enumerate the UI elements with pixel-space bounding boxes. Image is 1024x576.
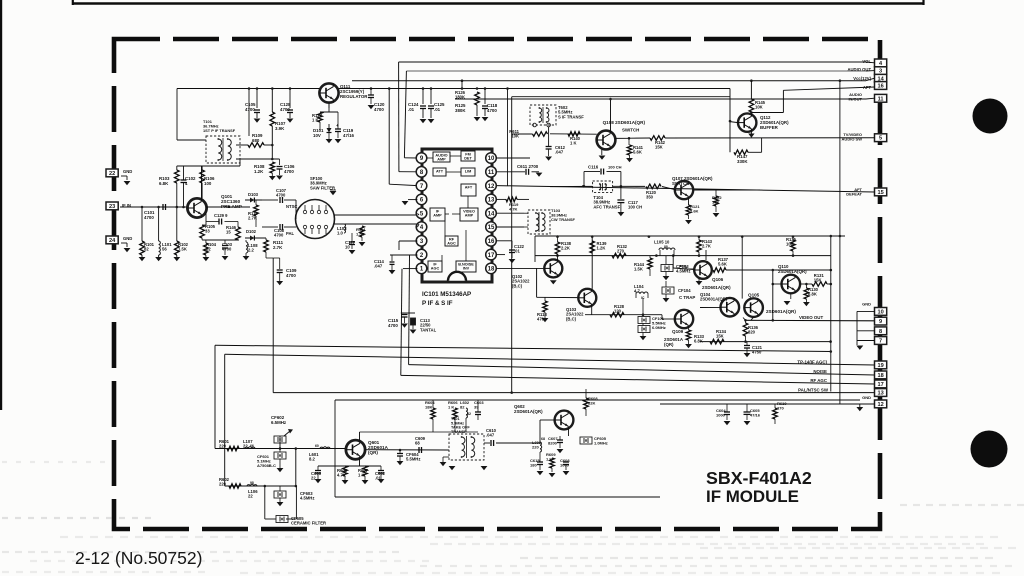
svg-text:11: 11 — [488, 170, 495, 176]
svg-text:GND: GND — [123, 169, 132, 174]
svg-text:24: 24 — [109, 238, 116, 244]
svg-text:82: 82 — [144, 247, 149, 252]
svg-text:1.5K: 1.5K — [178, 247, 187, 252]
svg-text:LIM: LIM — [465, 170, 472, 174]
svg-text:8.2: 8.2 — [309, 457, 315, 462]
svg-text:1.5K: 1.5K — [634, 267, 643, 272]
svg-text:4700: 4700 — [388, 323, 398, 328]
svg-text:10K: 10K — [511, 134, 519, 139]
svg-text:10: 10 — [345, 245, 350, 250]
svg-text:DET: DET — [464, 157, 472, 161]
svg-text:Q108 2SD601A(QR): Q108 2SD601A(QR) — [603, 120, 646, 125]
svg-text:9: 9 — [879, 319, 882, 325]
svg-text:NOISE: NOISE — [813, 369, 827, 374]
svg-text:5.5MHz: 5.5MHz — [406, 457, 420, 462]
svg-text:AMP: AMP — [437, 158, 446, 162]
svg-text:2SD601A(QR): 2SD601A(QR) — [766, 309, 796, 314]
svg-text:L105 10: L105 10 — [654, 240, 670, 245]
svg-text:1000: 1000 — [560, 463, 570, 468]
svg-text:56: 56 — [162, 247, 167, 252]
svg-text:ATT: ATT — [436, 170, 444, 174]
svg-text:15K: 15K — [655, 145, 663, 150]
svg-text:6.0MHz: 6.0MHz — [652, 325, 666, 330]
svg-text:C TRAP: C TRAP — [679, 295, 695, 300]
svg-text:1 K: 1 K — [570, 141, 577, 146]
svg-text:VOL: VOL — [862, 59, 871, 64]
svg-text:PAL: PAL — [286, 231, 295, 236]
svg-text:8: 8 — [879, 329, 882, 335]
svg-text:.047: .047 — [486, 433, 495, 438]
svg-text:S IF TRANSF: S IF TRANSF — [558, 114, 584, 119]
svg-text:P IF & S IF: P IF & S IF — [422, 300, 453, 307]
svg-text:VIDEO OUT: VIDEO OUT — [799, 315, 823, 320]
svg-text:2.7K: 2.7K — [248, 216, 257, 221]
svg-text:C611 2700: C611 2700 — [517, 164, 539, 169]
svg-text:270: 270 — [617, 249, 625, 254]
svg-text:270: 270 — [777, 406, 784, 411]
svg-text:CF104: CF104 — [678, 288, 691, 293]
svg-text:5.6K: 5.6K — [690, 209, 699, 214]
svg-text:AFT: AFT — [863, 85, 872, 90]
svg-text:+: + — [336, 123, 339, 128]
svg-text:820: 820 — [748, 330, 756, 335]
svg-text:12: 12 — [488, 184, 495, 190]
svg-text:AFT: AFT — [465, 186, 473, 190]
svg-text:6.8K: 6.8K — [808, 292, 817, 297]
svg-text:22: 22 — [243, 444, 248, 449]
svg-text:1.2K: 1.2K — [254, 169, 264, 174]
svg-text:1 K: 1 K — [448, 405, 454, 410]
svg-text:CERAMIC FILTER: CERAMIC FILTER — [291, 521, 326, 526]
svg-text:66: 66 — [250, 444, 254, 448]
svg-text:4700: 4700 — [144, 215, 154, 220]
svg-text:16: 16 — [488, 239, 495, 245]
svg-text:13: 13 — [877, 391, 883, 397]
svg-text:4700: 4700 — [280, 107, 290, 112]
svg-text:680: 680 — [252, 138, 260, 143]
svg-text:350: 350 — [646, 195, 654, 200]
svg-text:220: 220 — [219, 444, 227, 449]
svg-text:BUFFER: BUFFER — [760, 125, 779, 130]
svg-text:AMP: AMP — [433, 214, 442, 218]
svg-text:68: 68 — [415, 441, 420, 446]
svg-text:330K: 330K — [737, 159, 748, 164]
svg-text:1 K: 1 K — [358, 473, 365, 478]
svg-text:10: 10 — [877, 309, 883, 315]
svg-text:4700: 4700 — [487, 108, 497, 113]
svg-text:REGULATOR: REGULATOR — [340, 94, 368, 99]
svg-text:.01: .01 — [408, 107, 415, 112]
svg-text:4.5MHz: 4.5MHz — [300, 496, 314, 501]
svg-text:4700: 4700 — [286, 273, 296, 278]
svg-text:82: 82 — [460, 405, 465, 410]
svg-text:82: 82 — [467, 412, 471, 416]
svg-text:(B,C): (B,C) — [566, 316, 577, 321]
svg-text:SBX-F401A2: SBX-F401A2 — [706, 468, 812, 488]
svg-text:220: 220 — [532, 445, 539, 450]
svg-text:4700: 4700 — [374, 107, 384, 112]
svg-text:4.7K: 4.7K — [509, 207, 518, 212]
svg-text:10K: 10K — [712, 200, 719, 205]
svg-text:15: 15 — [877, 190, 883, 196]
svg-text:98: 98 — [250, 481, 254, 485]
svg-text:Vcc(12V): Vcc(12V) — [853, 76, 871, 81]
svg-text:.01: .01 — [514, 249, 520, 254]
svg-text:2.7K: 2.7K — [273, 245, 283, 250]
svg-text:IC101 M51346AP: IC101 M51346AP — [422, 291, 471, 298]
svg-text:1000: 1000 — [716, 413, 726, 418]
svg-text:17: 17 — [488, 253, 495, 259]
svg-text:10: 10 — [488, 156, 495, 162]
svg-text:1 K: 1 K — [312, 118, 319, 123]
svg-text:13: 13 — [488, 198, 495, 204]
svg-text:2SD601A(QR): 2SD601A(QR) — [514, 409, 543, 414]
svg-text:INV: INV — [463, 267, 470, 271]
svg-text:100 CH: 100 CH — [608, 165, 622, 170]
svg-text:.01: .01 — [375, 476, 381, 481]
svg-text:3.9K: 3.9K — [275, 126, 285, 131]
svg-text:TRANSF: TRANSF — [451, 430, 467, 434]
svg-text:GND: GND — [862, 395, 871, 400]
svg-text:IF MODULE: IF MODULE — [706, 487, 799, 506]
svg-text:100 CH: 100 CH — [628, 205, 642, 210]
svg-text:4700: 4700 — [274, 233, 284, 238]
svg-text:2.2K: 2.2K — [561, 246, 570, 251]
svg-text:14: 14 — [488, 211, 495, 217]
svg-text:7: 7 — [879, 339, 882, 345]
svg-text:88: 88 — [664, 245, 668, 249]
svg-text:82K: 82K — [588, 401, 595, 406]
svg-text:.047: .047 — [555, 150, 564, 155]
svg-text:A7508B-C: A7508B-C — [257, 463, 276, 468]
svg-text:PAL/NTSC SW: PAL/NTSC SW — [798, 388, 829, 393]
svg-text:SWITCH: SWITCH — [622, 128, 639, 133]
svg-text:1.5K: 1.5K — [356, 232, 365, 237]
svg-text:5: 5 — [879, 136, 882, 142]
svg-text:(QR): (QR) — [368, 450, 378, 455]
svg-text:Q105: Q105 — [748, 293, 760, 298]
svg-text:TP-14(IF AGC): TP-14(IF AGC) — [797, 360, 827, 365]
svg-text:CW TRANSF: CW TRANSF — [551, 217, 576, 222]
svg-text:1.0: 1.0 — [337, 231, 343, 236]
svg-text:68: 68 — [541, 437, 545, 441]
svg-text:2.2: 2.2 — [248, 248, 254, 253]
svg-text:6.8K: 6.8K — [159, 181, 169, 186]
svg-text:1.2K: 1.2K — [597, 246, 606, 251]
svg-text:1 K: 1 K — [546, 457, 552, 462]
svg-text:GND: GND — [123, 236, 132, 241]
svg-text:33: 33 — [205, 229, 210, 234]
svg-text:180: 180 — [530, 463, 537, 468]
svg-text:19: 19 — [877, 363, 883, 369]
svg-text:47/16: 47/16 — [343, 133, 355, 138]
svg-text:6.5MHz: 6.5MHz — [271, 420, 287, 425]
svg-text:C116: C116 — [588, 165, 599, 170]
svg-text:10V: 10V — [313, 133, 321, 138]
svg-text:RF AGC: RF AGC — [810, 378, 827, 383]
svg-text:15K: 15K — [716, 334, 724, 339]
svg-text:22: 22 — [109, 171, 115, 177]
svg-text:.01: .01 — [434, 107, 441, 112]
svg-text:AFC TRANSF: AFC TRANSF — [593, 204, 620, 209]
svg-text:2SD601A(QR): 2SD601A(QR) — [702, 285, 731, 290]
svg-text:10K: 10K — [786, 242, 794, 247]
svg-text:4700: 4700 — [222, 247, 232, 252]
svg-text:60: 60 — [315, 444, 319, 448]
svg-text:18K: 18K — [425, 405, 432, 410]
svg-text:2SD601A(QR): 2SD601A(QR) — [700, 297, 728, 302]
svg-text:.047: .047 — [374, 264, 383, 269]
svg-text:17: 17 — [877, 382, 883, 388]
svg-text:2.7K: 2.7K — [702, 244, 711, 249]
svg-text:23: 23 — [109, 204, 115, 210]
svg-text:39: 39 — [474, 405, 479, 410]
svg-text:5.6K: 5.6K — [633, 150, 642, 155]
svg-text:380K: 380K — [455, 108, 466, 113]
svg-text:22: 22 — [311, 476, 316, 481]
svg-text:120: 120 — [614, 309, 622, 314]
svg-text:AMP: AMP — [465, 214, 474, 218]
svg-text:AUDIO OUT: AUDIO OUT — [848, 67, 872, 72]
svg-text:4700: 4700 — [284, 169, 294, 174]
svg-text:15: 15 — [226, 230, 231, 235]
svg-text:2SD601A(QR): 2SD601A(QR) — [778, 269, 807, 274]
svg-text:16: 16 — [877, 84, 883, 90]
svg-text:4700: 4700 — [245, 107, 255, 112]
svg-text:47/16: 47/16 — [750, 413, 761, 418]
svg-text:18: 18 — [488, 267, 495, 273]
svg-text:11: 11 — [878, 96, 884, 102]
svg-text:AGC: AGC — [447, 242, 456, 246]
svg-text:C129 9: C129 9 — [214, 213, 228, 218]
svg-text:(QR): (QR) — [664, 342, 674, 347]
svg-text:18: 18 — [877, 373, 883, 379]
svg-text:D103: D103 — [248, 192, 259, 197]
svg-text:1ST P IF TRANSF: 1ST P IF TRANSF — [203, 128, 236, 133]
svg-text:220: 220 — [219, 482, 227, 487]
svg-text:4.7K: 4.7K — [337, 473, 346, 478]
svg-text:(B,C): (B,C) — [512, 283, 523, 288]
svg-text:100: 100 — [204, 181, 212, 186]
svg-text:5.6K: 5.6K — [718, 262, 727, 267]
svg-text:TANTAL: TANTAL — [420, 327, 437, 332]
svg-text:AGC: AGC — [431, 267, 440, 271]
svg-text:1.0MHz: 1.0MHz — [594, 441, 608, 446]
svg-text:IN/OUT: IN/OUT — [848, 97, 862, 102]
svg-text:10K: 10K — [755, 105, 763, 110]
svg-text:D102: D102 — [246, 229, 257, 234]
svg-text:22: 22 — [248, 494, 253, 499]
svg-text:15: 15 — [488, 225, 495, 231]
svg-text:15K: 15K — [814, 278, 822, 283]
svg-text:Q106: Q106 — [712, 277, 724, 282]
svg-text:8200: 8200 — [548, 441, 558, 446]
svg-text:82: 82 — [206, 247, 211, 252]
svg-text:4700: 4700 — [276, 193, 286, 198]
svg-text:GND: GND — [862, 302, 871, 307]
svg-text:Q109: Q109 — [672, 329, 684, 334]
svg-text:12: 12 — [877, 402, 883, 408]
svg-text:SWITCH: SWITCH — [672, 181, 689, 186]
